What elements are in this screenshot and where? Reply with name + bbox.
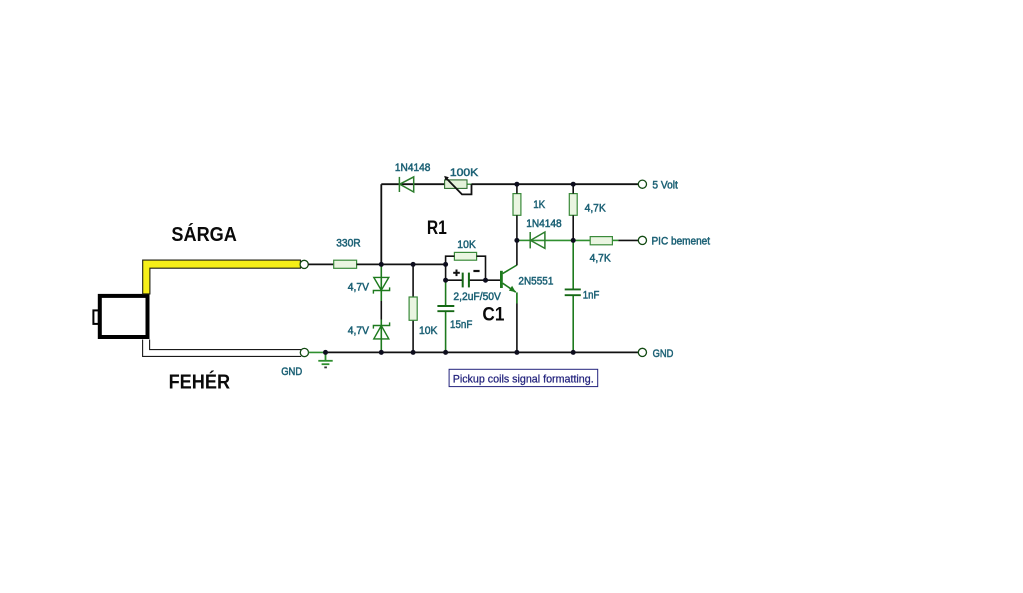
terminal input signal (open circle) bbox=[300, 260, 308, 268]
diode D3 1N4148 (top) bbox=[399, 177, 413, 192]
junction gnd/earth bbox=[323, 350, 328, 355]
junction collector node bbox=[514, 238, 519, 243]
terminal GND right bbox=[638, 348, 646, 356]
ground symbol bbox=[318, 352, 332, 367]
potentiometer R1 100K bbox=[444, 176, 471, 195]
junction top rail 1K bbox=[514, 182, 519, 187]
wire clamp row bbox=[517, 239, 530, 241]
wire yellow SÁRGA from connector to input terminal bbox=[143, 260, 301, 294]
wire 10K feedback left lead bbox=[446, 256, 455, 264]
terminal 5 Volt bbox=[638, 180, 646, 188]
junction gnd/10K bbox=[411, 350, 416, 355]
svg-text:5 Volt: 5 Volt bbox=[652, 180, 678, 192]
svg-text:FEHÉR: FEHÉR bbox=[169, 371, 231, 394]
svg-text:1K: 1K bbox=[533, 199, 546, 211]
resistor 4,7K pull-up bbox=[569, 194, 577, 216]
svg-text:Pickup coils signal formatting: Pickup coils signal formatting. bbox=[453, 373, 594, 385]
svg-text:4,7K: 4,7K bbox=[590, 253, 612, 265]
svg-text:GND: GND bbox=[653, 348, 674, 360]
junction signal/10K bbox=[411, 262, 416, 267]
svg-text:1N4148: 1N4148 bbox=[395, 162, 431, 174]
svg-text:SÁRGA: SÁRGA bbox=[171, 223, 237, 246]
junction PIC node bbox=[571, 238, 576, 243]
svg-text:100K: 100K bbox=[450, 167, 479, 179]
polarity minus sign bbox=[473, 270, 479, 272]
junction gnd/1nF bbox=[571, 350, 576, 355]
wire emitter vertical bbox=[516, 292, 518, 303]
junction base node bbox=[483, 278, 488, 283]
wire vertical from top rail down to signal node bbox=[380, 184, 382, 264]
svg-text:4,7V: 4,7V bbox=[348, 325, 370, 337]
svg-text:1nF: 1nF bbox=[583, 289, 600, 301]
diode D4 1N4148 (clamp) bbox=[530, 232, 545, 248]
wire top 5V rail bbox=[381, 183, 399, 185]
terminal PIC bemenet bbox=[638, 236, 646, 244]
junction gnd/15nF bbox=[443, 350, 448, 355]
capacitor 1nF bbox=[565, 289, 581, 295]
wire white FEHÉR from connector to left ground terminal bbox=[143, 340, 302, 357]
caption box bbox=[449, 369, 598, 386]
wire vertical zener chain bbox=[380, 264, 382, 301]
junction signal/feedback bbox=[443, 262, 448, 267]
wire ground rail green stub from terminal to junction bbox=[309, 351, 326, 353]
zener diode D2 4,7V bbox=[373, 322, 389, 339]
wire 10K feedback right lead bbox=[477, 256, 486, 280]
junction gnd/emitter bbox=[514, 350, 519, 355]
capacitor C 2,2uF/50V electrolytic plates bbox=[463, 273, 469, 288]
svg-text:PIC bemenet: PIC bemenet bbox=[652, 236, 711, 248]
wire vertical capacitor branch bbox=[445, 264, 447, 280]
svg-text:330R: 330R bbox=[336, 238, 361, 250]
resistor 10K feedback (horizontal) bbox=[454, 252, 476, 260]
resistor 330R bbox=[334, 260, 357, 268]
junction top rail 4,7K bbox=[571, 182, 576, 187]
connector J1 (pickup jack body) bbox=[93, 296, 147, 337]
wire 10K vertical resistor leads bbox=[412, 264, 414, 352]
svg-text:10K: 10K bbox=[419, 325, 438, 337]
polarity plus sign bbox=[453, 270, 460, 277]
wire base branch horizontal bbox=[446, 279, 463, 281]
wire collector vertical bbox=[516, 240, 518, 265]
svg-text:4,7V: 4,7V bbox=[348, 281, 370, 293]
transistor Q1 2N5551 bbox=[501, 265, 517, 292]
svg-text:R1: R1 bbox=[427, 218, 447, 239]
wire from series resistor to PIC terminal bbox=[612, 239, 618, 241]
svg-text:C1: C1 bbox=[482, 304, 504, 325]
wire 1nF branch vertical bbox=[572, 240, 574, 289]
junction cap branch bbox=[443, 278, 448, 283]
svg-text:GND: GND bbox=[281, 366, 302, 378]
capacitor 15nF bbox=[437, 306, 454, 311]
svg-text:2,2uF/50V: 2,2uF/50V bbox=[453, 291, 501, 303]
junction gnd/zener bbox=[379, 350, 384, 355]
zener diode D1 4,7V bbox=[373, 277, 389, 293]
resistor 4,7K series bbox=[590, 237, 612, 245]
svg-text:1N4148: 1N4148 bbox=[526, 218, 562, 230]
terminal ground left (open circle) bbox=[300, 348, 308, 356]
svg-text:15nF: 15nF bbox=[450, 319, 473, 331]
resistor 1K bbox=[513, 194, 521, 216]
resistor 10K vertical bbox=[409, 297, 417, 320]
junction signal/zener bbox=[379, 262, 384, 267]
wire main signal node horizontal bbox=[357, 263, 446, 265]
wire ground rail bottom bbox=[326, 351, 639, 353]
svg-text:10K: 10K bbox=[457, 239, 476, 251]
wire signal from input terminal to 330R bbox=[308, 263, 333, 265]
svg-text:2N5551: 2N5551 bbox=[518, 275, 553, 287]
svg-text:4,7K: 4,7K bbox=[585, 203, 607, 215]
